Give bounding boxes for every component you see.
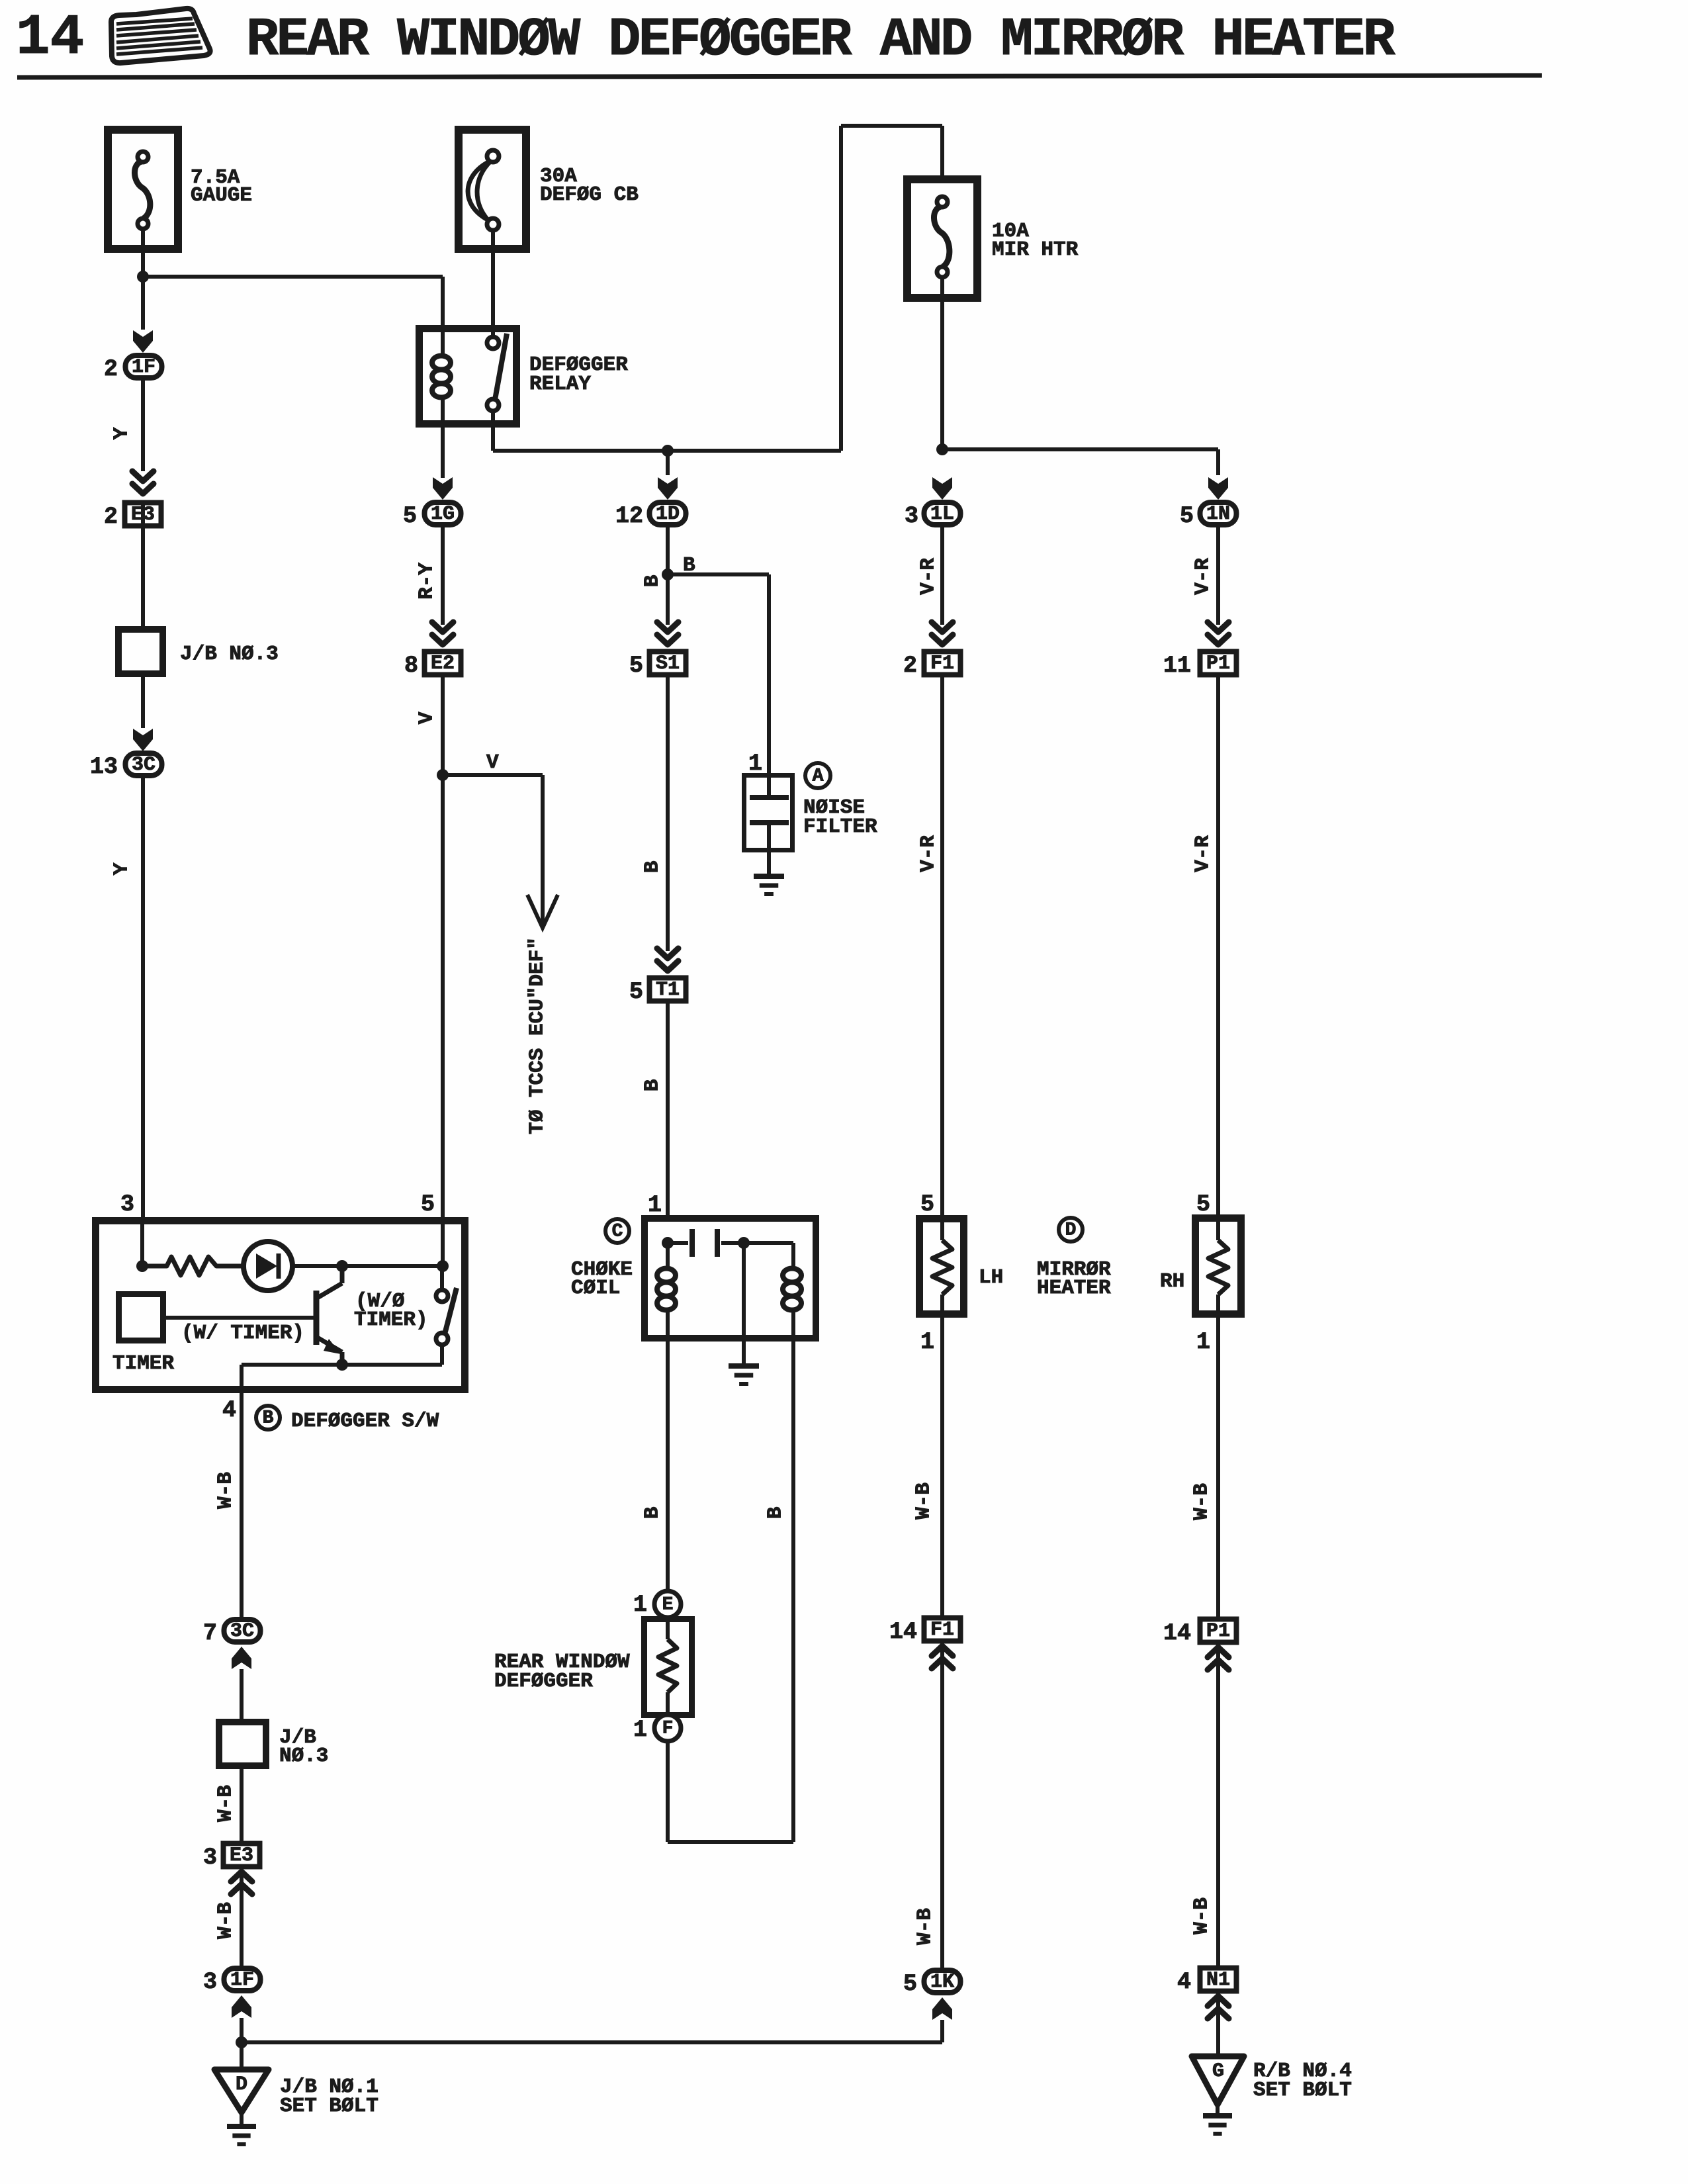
svg-text:Y: Y: [111, 427, 134, 439]
svg-text:(W/ TIMER): (W/ TIMER): [181, 1322, 304, 1345]
svg-text:DEFØGGER: DEFØGGER: [494, 1670, 593, 1693]
svg-text:E3: E3: [230, 1844, 253, 1867]
svg-text:G: G: [1212, 2060, 1224, 2083]
svg-text:3: 3: [120, 1191, 134, 1218]
svg-text:7: 7: [203, 1620, 217, 1647]
svg-text:B: B: [764, 1507, 787, 1520]
svg-text:E2: E2: [431, 653, 455, 675]
svg-text:14: 14: [889, 1619, 917, 1645]
svg-text:FILTER: FILTER: [803, 815, 877, 839]
svg-text:2: 2: [104, 504, 118, 530]
svg-text:DEFØG CB: DEFØG CB: [540, 183, 639, 206]
svg-text:14: 14: [1163, 1620, 1191, 1647]
svg-text:11: 11: [1163, 653, 1191, 679]
svg-text:R-Y: R-Y: [416, 563, 439, 600]
svg-text:5: 5: [421, 1191, 435, 1218]
svg-text:REAR WINDØW DEFØGGER AND MIRRØ: REAR WINDØW DEFØGGER AND MIRRØR HEATER: [246, 9, 1396, 71]
svg-text:B: B: [263, 1408, 274, 1429]
svg-text:1: 1: [648, 1192, 662, 1218]
svg-text:C: C: [612, 1222, 623, 1242]
svg-text:2: 2: [104, 356, 118, 383]
svg-text:V-R: V-R: [917, 558, 940, 595]
svg-text:8: 8: [404, 653, 418, 679]
svg-text:B: B: [641, 1079, 664, 1092]
svg-text:F1: F1: [930, 653, 954, 675]
svg-text:5: 5: [920, 1191, 934, 1218]
svg-text:3: 3: [203, 1844, 217, 1871]
svg-text:3: 3: [905, 503, 918, 529]
svg-text:S1: S1: [656, 653, 680, 675]
svg-text:14: 14: [16, 5, 84, 70]
svg-text:V-R: V-R: [1192, 835, 1215, 872]
svg-text:D: D: [1065, 1220, 1077, 1241]
svg-text:1F: 1F: [132, 356, 155, 379]
svg-text:1D: 1D: [656, 503, 680, 525]
svg-text:1G: 1G: [431, 503, 455, 525]
svg-text:W-B: W-B: [214, 1785, 238, 1822]
svg-text:Y: Y: [111, 862, 134, 875]
svg-text:A: A: [813, 766, 824, 787]
svg-text:B: B: [641, 575, 664, 588]
svg-text:5: 5: [1180, 503, 1194, 529]
svg-text:5: 5: [629, 979, 643, 1005]
svg-text:SET BØLT: SET BØLT: [1253, 2079, 1352, 2102]
svg-text:HEATER: HEATER: [1037, 1277, 1111, 1300]
svg-text:V-R: V-R: [917, 835, 940, 872]
svg-text:1: 1: [920, 1329, 934, 1355]
svg-text:W-B: W-B: [214, 1472, 238, 1509]
svg-text:W-B: W-B: [1190, 1483, 1214, 1520]
svg-text:TIMER: TIMER: [112, 1352, 174, 1375]
svg-text:12: 12: [615, 503, 643, 529]
svg-text:D: D: [236, 2073, 247, 2096]
svg-text:13: 13: [90, 754, 118, 780]
svg-text:5: 5: [629, 653, 643, 679]
svg-text:SET BØLT: SET BØLT: [280, 2095, 378, 2118]
svg-text:1: 1: [1196, 1329, 1210, 1355]
svg-text:5: 5: [1196, 1191, 1210, 1218]
svg-text:W-B: W-B: [914, 1908, 937, 1945]
svg-text:DEFØGGER S/W: DEFØGGER S/W: [291, 1410, 439, 1433]
svg-text:B: B: [641, 1507, 664, 1520]
svg-text:J/B NØ.3: J/B NØ.3: [180, 643, 279, 666]
svg-text:RH: RH: [1160, 1270, 1184, 1293]
svg-text:F: F: [662, 1719, 674, 1739]
svg-text:4: 4: [1177, 1969, 1191, 1995]
svg-text:3C: 3C: [132, 754, 155, 776]
svg-text:3C: 3C: [230, 1620, 254, 1643]
svg-text:LH: LH: [979, 1266, 1003, 1289]
svg-text:MIR HTR: MIR HTR: [992, 238, 1079, 261]
svg-text:N1: N1: [1206, 1969, 1230, 1991]
svg-text:TØ TCCS ECU"DEF": TØ TCCS ECU"DEF": [526, 937, 549, 1134]
svg-text:P1: P1: [1206, 653, 1230, 675]
svg-text:B: B: [683, 554, 695, 577]
svg-text:B: B: [641, 861, 664, 874]
svg-text:2: 2: [903, 653, 917, 679]
svg-text:W-B: W-B: [1190, 1897, 1214, 1934]
svg-text:5: 5: [903, 1971, 917, 1997]
svg-text:V: V: [486, 751, 499, 774]
svg-text:1: 1: [633, 1592, 647, 1618]
svg-text:1F: 1F: [230, 1969, 254, 1991]
svg-text:1: 1: [633, 1717, 647, 1743]
svg-text:5: 5: [403, 503, 417, 529]
svg-text:4: 4: [222, 1397, 236, 1424]
svg-text:T1: T1: [656, 979, 680, 1001]
svg-text:1L: 1L: [930, 503, 954, 525]
svg-text:W-B: W-B: [912, 1482, 936, 1520]
svg-text:F1: F1: [930, 1619, 954, 1641]
svg-text:1K: 1K: [930, 1971, 954, 1993]
svg-text:W-B: W-B: [214, 1902, 238, 1939]
svg-text:NØ.3: NØ.3: [279, 1745, 328, 1768]
svg-text:V: V: [416, 711, 439, 724]
svg-text:V-R: V-R: [1192, 558, 1215, 595]
svg-text:TIMER): TIMER): [354, 1308, 428, 1332]
svg-text:P1: P1: [1206, 1620, 1230, 1643]
svg-text:RELAY: RELAY: [529, 373, 591, 396]
svg-text:3: 3: [203, 1969, 217, 1995]
svg-text:GAUGE: GAUGE: [191, 184, 252, 207]
svg-text:1N: 1N: [1206, 503, 1230, 525]
svg-text:CØIL: CØIL: [571, 1277, 620, 1300]
svg-text:E: E: [662, 1595, 674, 1615]
